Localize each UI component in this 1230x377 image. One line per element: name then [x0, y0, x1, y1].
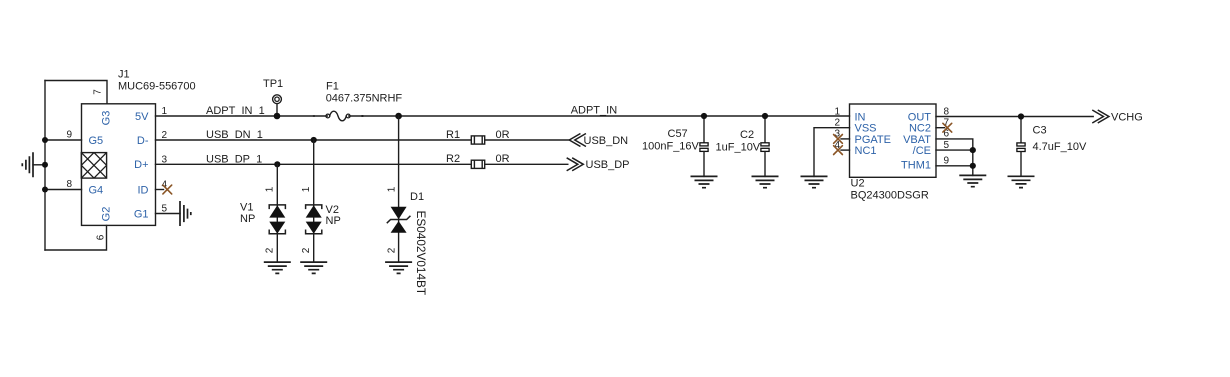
svg-text:IN: IN — [855, 111, 866, 123]
svg-text:G3: G3 — [101, 111, 113, 126]
svg-text:1: 1 — [834, 106, 840, 117]
node TP1 junction — [274, 113, 281, 120]
node bus-pin8 — [42, 187, 48, 193]
svg-text:6: 6 — [95, 234, 106, 240]
svg-text:BQ24300DSGR: BQ24300DSGR — [851, 190, 929, 202]
wire J1 bottom link pin 6 — [45, 225, 107, 250]
wire pin 8 — [45, 189, 82, 191]
wire /CE pin 5 — [936, 149, 973, 151]
svg-text:8: 8 — [66, 179, 72, 190]
wire USB_DN — [485, 139, 570, 141]
ground U2 right — [959, 175, 986, 186]
svg-text:2: 2 — [387, 247, 398, 253]
ground pin G1 — [156, 201, 191, 226]
svg-text:V1: V1 — [240, 201, 253, 213]
port USB_DP chevron — [567, 158, 583, 170]
svg-text:1: 1 — [265, 186, 276, 192]
svg-text:G4: G4 — [89, 184, 104, 196]
svg-text:TP1: TP1 — [263, 78, 283, 90]
connector J1 shield hatch — [81, 153, 106, 179]
wire VBAT pin 6 — [936, 139, 973, 176]
resistor R2 — [471, 160, 484, 168]
svg-text:1: 1 — [387, 186, 398, 192]
svg-text:NP: NP — [240, 213, 255, 225]
resistor R1 — [471, 136, 484, 144]
node V1 junction — [274, 161, 280, 167]
svg-text:OUT: OUT — [908, 111, 932, 123]
port USB_DN chevron — [569, 134, 585, 146]
wire left ground bus — [44, 81, 46, 251]
svg-text:VBAT: VBAT — [903, 134, 931, 146]
svg-text:0R: 0R — [496, 129, 510, 141]
ground C57 — [691, 176, 718, 187]
svg-text:VSS: VSS — [855, 123, 877, 135]
svg-text:9: 9 — [944, 156, 950, 167]
svg-text:ID: ID — [138, 184, 149, 196]
svg-text:NP: NP — [326, 215, 341, 227]
ground C2 — [752, 176, 779, 187]
pin NC2 stub no-connect — [936, 123, 952, 132]
svg-text:G5: G5 — [89, 135, 104, 147]
svg-text:7: 7 — [92, 89, 103, 95]
svg-text:USB_DP: USB_DP — [586, 159, 630, 171]
wire net ADPT_IN_1 — [156, 115, 328, 117]
node VBAT-CE junction — [970, 147, 976, 153]
svg-text:5: 5 — [944, 140, 950, 151]
capacitor C3 — [1017, 117, 1025, 177]
svg-text:D-: D- — [137, 135, 149, 147]
IC U2 body — [850, 104, 937, 177]
svg-text:C57: C57 — [668, 128, 688, 140]
diode D1 — [387, 116, 410, 262]
svg-text:/CE: /CE — [913, 145, 931, 157]
svg-text:5V: 5V — [135, 111, 149, 123]
svg-text:9: 9 — [66, 130, 72, 141]
pin PGATE stub no-connect — [834, 135, 850, 144]
wire VSS pin 2 — [814, 128, 850, 177]
wire net VCHG out — [936, 116, 1093, 118]
wire USB_DP — [485, 163, 568, 165]
svg-text:4.7uF_10V: 4.7uF_10V — [1033, 141, 1087, 153]
svg-text:THM1: THM1 — [901, 160, 931, 172]
wire THM1 pin 9 — [936, 165, 973, 167]
diode V2 — [306, 140, 322, 262]
svg-text:ES0402V014BT: ES0402V014BT — [414, 211, 428, 296]
svg-text:G1: G1 — [134, 208, 149, 220]
svg-text:R2: R2 — [446, 153, 460, 165]
node C3 junction — [1018, 113, 1024, 119]
wire pin 9 — [45, 139, 82, 141]
svg-text:D+: D+ — [134, 159, 148, 171]
svg-text:1uF_10V: 1uF_10V — [716, 141, 761, 153]
ground V2 — [300, 262, 327, 273]
ground VSS — [801, 176, 828, 187]
node V2 junction — [311, 137, 317, 143]
ground left of J1 — [22, 152, 45, 177]
svg-text:2: 2 — [265, 247, 276, 253]
pin ID stub no-connect — [156, 185, 172, 194]
capacitor C57 — [700, 116, 708, 176]
svg-text:U2: U2 — [851, 178, 865, 190]
connector J1 body — [82, 104, 156, 226]
node C2 junction — [762, 113, 768, 119]
test point TP1 — [263, 78, 283, 116]
node C57 junction — [701, 113, 707, 119]
svg-text:NC1: NC1 — [855, 145, 877, 157]
svg-text:PGATE: PGATE — [855, 134, 891, 146]
svg-text:NC2: NC2 — [909, 123, 931, 135]
node bus-pin9 — [42, 137, 48, 143]
wire net USB_DN_1 — [156, 139, 472, 141]
svg-text:100nF_16V: 100nF_16V — [642, 141, 700, 153]
svg-text:0467.375NRHF: 0467.375NRHF — [326, 93, 403, 105]
node VBAT-THM1 junction — [970, 163, 976, 169]
svg-text:1: 1 — [301, 186, 312, 192]
fuse F1 — [313, 111, 364, 121]
svg-text:C3: C3 — [1033, 124, 1047, 136]
svg-text:ADPT_IN_1: ADPT_IN_1 — [206, 105, 265, 117]
svg-text:MUC69-556700: MUC69-556700 — [118, 81, 196, 93]
port VCHG chevron — [1093, 110, 1109, 122]
diode V1 — [269, 164, 285, 262]
svg-text:USB_DN: USB_DN — [584, 135, 629, 147]
pin NC1 stub no-connect — [834, 146, 850, 155]
capacitor C2 — [761, 116, 769, 176]
svg-text:2: 2 — [834, 118, 840, 129]
svg-text:C2: C2 — [740, 129, 754, 141]
svg-text:G2: G2 — [101, 207, 113, 222]
wire J1 top link pin 7 — [45, 81, 107, 104]
wire net USB_DP_1 — [156, 163, 472, 165]
ground C3 — [1008, 176, 1035, 187]
svg-text:D1: D1 — [410, 191, 424, 203]
ground D1 — [385, 262, 412, 273]
ground V1 — [264, 262, 291, 273]
svg-text:J1: J1 — [118, 69, 130, 81]
svg-text:USB_DP_1: USB_DP_1 — [206, 154, 262, 166]
svg-text:F1: F1 — [326, 80, 339, 92]
svg-text:R1: R1 — [446, 129, 460, 141]
svg-text:VCHG: VCHG — [1111, 111, 1143, 123]
node bus-ground — [42, 162, 48, 168]
svg-text:USB_DN_1: USB_DN_1 — [206, 129, 263, 141]
svg-text:ADPT_IN: ADPT_IN — [571, 104, 618, 116]
node fuse-D1 junction — [395, 113, 402, 120]
svg-text:8: 8 — [944, 106, 950, 117]
svg-text:0R: 0R — [496, 153, 510, 165]
wire net ADPT_IN — [349, 115, 850, 117]
svg-text:2: 2 — [301, 247, 312, 253]
